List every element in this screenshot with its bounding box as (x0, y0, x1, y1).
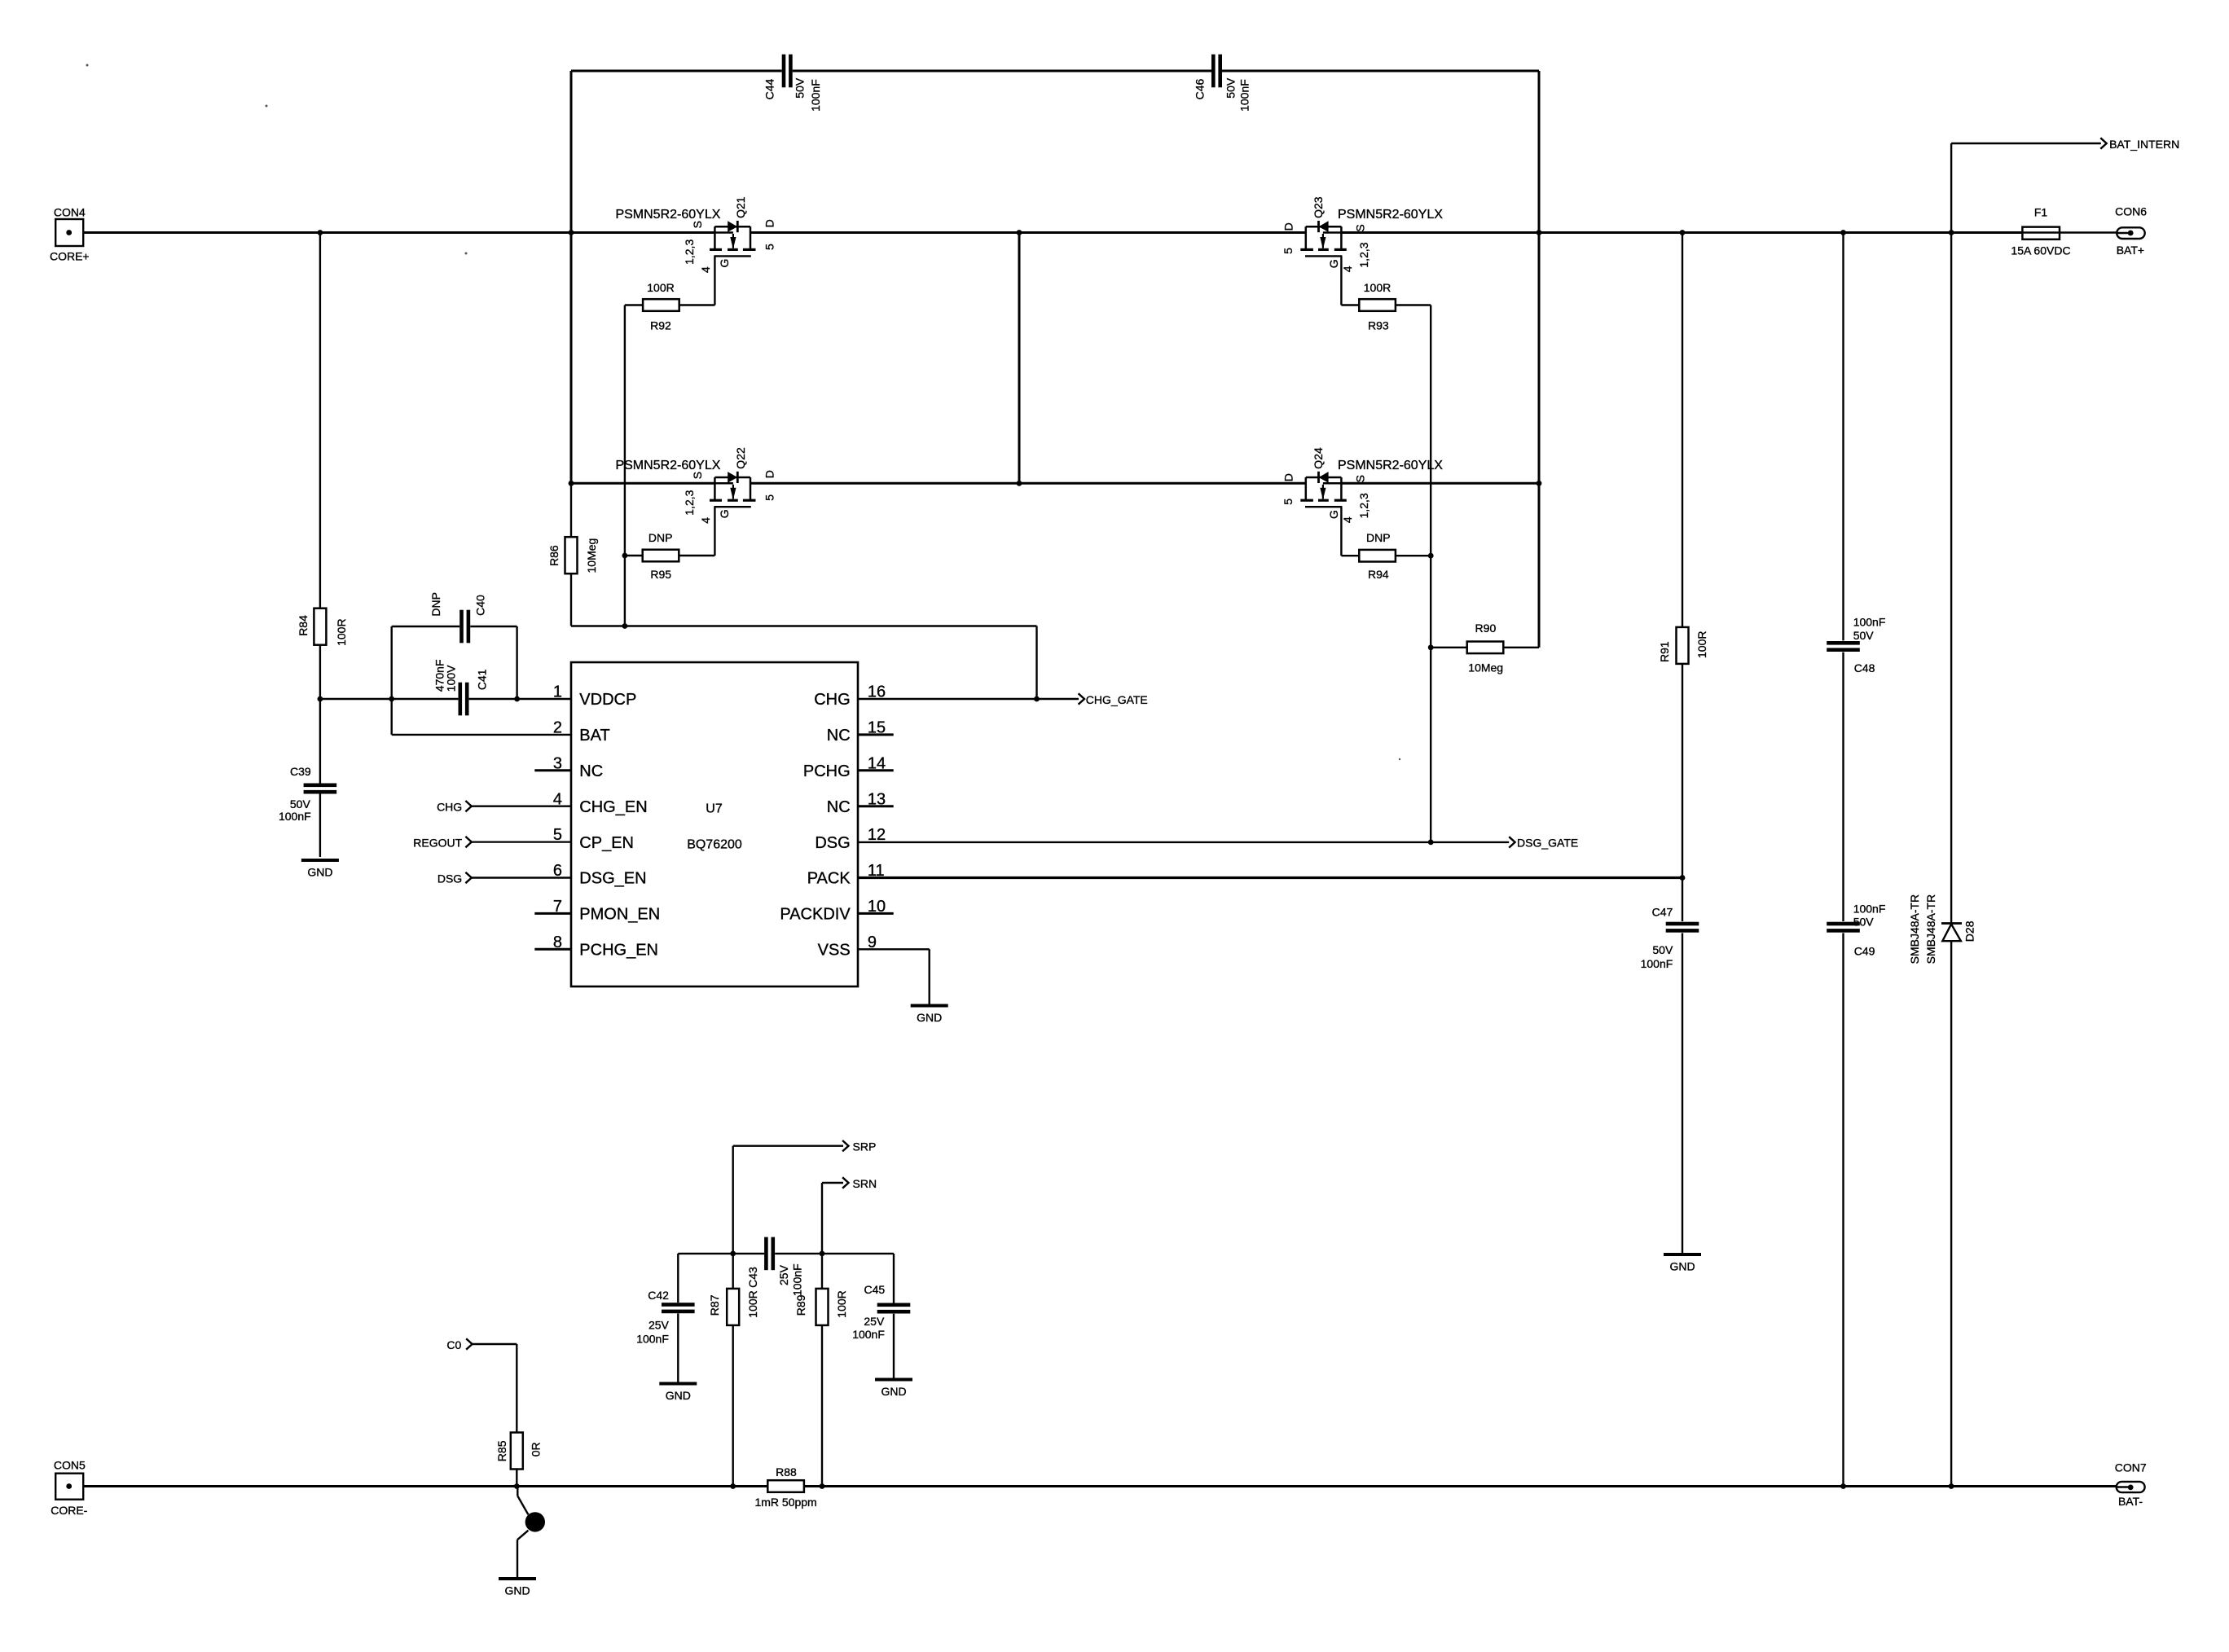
svg-text:D: D (763, 219, 776, 227)
svg-text:CHG_EN: CHG_EN (579, 798, 647, 816)
ground below VSS (911, 1004, 948, 1008)
connector CON6 (2117, 227, 2145, 239)
wire VSS pin 9 to ground (858, 948, 930, 950)
wire DSG pin 12 to DSG_GATE (858, 841, 1509, 843)
wire D28 anode to BAT- rail (1950, 941, 1952, 1486)
svg-text:1,2,3: 1,2,3 (1357, 493, 1370, 518)
wire C43 row right to C45 (822, 1253, 894, 1254)
pin 13 NC stub (858, 805, 894, 807)
pin 10 PACKDIV stub (858, 912, 894, 915)
resistor R90 (1467, 642, 1504, 654)
svg-text:25V: 25V (864, 1315, 885, 1328)
svg-text:CP_EN: CP_EN (579, 834, 634, 852)
wire R89 bottom to CORE- rail (821, 1325, 823, 1487)
svg-text:5: 5 (553, 826, 562, 844)
svg-text:0R: 0R (529, 1442, 542, 1456)
junction C43 row / R87 SRP (730, 1251, 736, 1257)
svg-text:5: 5 (763, 494, 776, 501)
wire CORE+ rail from Q21 drain to Q23 drain (750, 231, 1306, 234)
ground below C45 (875, 1378, 912, 1382)
resistor R87 (727, 1289, 739, 1325)
svg-text:13: 13 (868, 790, 886, 808)
wire CORE+ rail from CON4 to Q21 source (69, 231, 715, 234)
wire C40 loop left vertical (391, 626, 393, 735)
svg-text:25V: 25V (777, 1264, 790, 1285)
svg-text:100nF: 100nF (852, 1328, 885, 1341)
svg-text:S: S (1354, 475, 1367, 482)
svg-text:G: G (718, 509, 731, 518)
svg-text:100R: 100R (335, 618, 348, 645)
svg-text:50V: 50V (290, 797, 311, 811)
svg-text:D28: D28 (1963, 920, 1976, 942)
svg-text:PCHG: PCHG (803, 762, 851, 780)
svg-text:16: 16 (868, 683, 886, 701)
svg-text:12: 12 (868, 826, 886, 844)
capacitor C46 (1211, 55, 1216, 88)
junction CORE- rail / R87 R88 (730, 1483, 736, 1489)
transistor Q22 (714, 477, 716, 499)
svg-text:R84: R84 (297, 615, 310, 636)
wire C48 to C49 (1842, 652, 1844, 921)
svg-text:8: 8 (553, 934, 562, 951)
junction gate net / R90 (1428, 644, 1434, 650)
svg-text:1,2,3: 1,2,3 (1357, 242, 1370, 267)
wire R85 to CORE- rail (516, 1469, 517, 1486)
wire Q23 gate to R93 (1341, 304, 1358, 305)
wire BAT+ rail to C48 (1842, 233, 1844, 641)
svg-text:G: G (718, 259, 731, 268)
svg-text:NC: NC (579, 762, 603, 780)
pin 7 PMON_EN stub (534, 912, 571, 915)
wire R90 left (1431, 647, 1466, 648)
svg-text:BAT-: BAT- (2118, 1495, 2143, 1508)
node CHG_GATE output port (1079, 693, 1084, 704)
svg-text:C44: C44 (763, 79, 776, 100)
svg-text:GND: GND (917, 1011, 942, 1024)
wire BAT+ to D28 cathode (1950, 233, 1952, 924)
resistor R92 (643, 299, 679, 311)
svg-text:25V: 25V (648, 1319, 670, 1332)
svg-text:C48: C48 (1854, 661, 1875, 674)
svg-text:C45: C45 (864, 1283, 886, 1296)
svg-text:GND: GND (1669, 1260, 1695, 1273)
junction gate net / R95 (622, 553, 628, 559)
ground below C42 (659, 1382, 697, 1386)
svg-text:5: 5 (1282, 499, 1295, 505)
svg-text:2: 2 (553, 719, 562, 737)
svg-text:SRP: SRP (853, 1140, 877, 1153)
svg-text:100nF: 100nF (636, 1332, 669, 1345)
junction VDDCP node / C40 loop left (389, 696, 394, 702)
svg-text:R92: R92 (650, 319, 671, 332)
svg-text:S: S (691, 221, 704, 228)
svg-text:100nF: 100nF (791, 1263, 804, 1296)
connector CON4 (55, 219, 83, 246)
svg-text:15A 60VDC: 15A 60VDC (2011, 244, 2070, 257)
wire C40 row left (392, 626, 459, 627)
wire Q22 gate lead (714, 507, 715, 556)
wire C40 loop right vertical (516, 626, 517, 699)
svg-text:G: G (1327, 259, 1340, 268)
svg-text:R89: R89 (794, 1294, 807, 1316)
capacitor C43 (764, 1237, 768, 1271)
capacitor C41 (459, 683, 463, 716)
capacitor C39 (304, 784, 337, 788)
svg-text:C43: C43 (746, 1267, 759, 1288)
wire R87 bottom to CORE- rail (732, 1325, 734, 1487)
svg-text:14: 14 (868, 754, 886, 772)
junction C43 row / R89 SRN (820, 1251, 825, 1257)
svg-text:R91: R91 (1658, 641, 1671, 662)
wire R90 right to BAT+ vertical (1504, 647, 1539, 648)
wire C45 to ground (893, 1314, 895, 1378)
svg-text:DNP: DNP (648, 531, 673, 544)
junction VDDCP node / C40 loop right (514, 696, 520, 702)
svg-text:CORE+: CORE+ (50, 250, 90, 263)
wire top loop right vertical (1538, 71, 1541, 233)
transistor Q21 (714, 226, 716, 248)
svg-text:CORE-: CORE- (51, 1504, 87, 1517)
svg-text:R85: R85 (495, 1440, 508, 1461)
svg-text:PSMN5R2-60YLX: PSMN5R2-60YLX (1338, 459, 1443, 472)
svg-text:NC: NC (827, 798, 851, 816)
svg-text:4: 4 (699, 266, 712, 273)
wire CORE+ rail to R84 (319, 233, 321, 609)
wire R91 to PACK node (1682, 664, 1683, 921)
wire VDDCP node down to C39 (319, 699, 321, 784)
wire C43 row plates (733, 1253, 764, 1254)
svg-text:15: 15 (868, 719, 886, 737)
svg-text:DNP: DNP (429, 592, 442, 617)
svg-text:D: D (1282, 473, 1295, 481)
wire R95 to gate-net vertical (625, 555, 643, 556)
wire R94 to right gate-net vertical (1396, 555, 1431, 556)
wire R93 to right gate-net vertical (1396, 304, 1431, 305)
svg-text:R87: R87 (708, 1294, 721, 1316)
svg-text:100nF: 100nF (1853, 903, 1886, 916)
connector CON5 (55, 1474, 83, 1500)
junction Q22 row / R86 (569, 481, 574, 486)
capacitor C47 (1666, 922, 1699, 926)
svg-text:R86: R86 (547, 545, 561, 566)
svg-text:50V: 50V (1853, 916, 1875, 929)
svg-text:F1: F1 (2034, 206, 2048, 219)
wire R89 top (821, 1254, 823, 1289)
wire SRP net (733, 1145, 843, 1146)
svg-text:10Meg: 10Meg (1468, 661, 1503, 674)
resistor R91 (1677, 627, 1689, 664)
svg-text:VDDCP: VDDCP (579, 691, 636, 709)
fuse F1 (2022, 227, 2060, 239)
wire mid vertical joining both rails (1018, 233, 1021, 484)
svg-text:100R: 100R (1364, 281, 1391, 294)
svg-text:CHG: CHG (814, 691, 850, 709)
svg-text:1mR 50ppm: 1mR 50ppm (754, 1496, 816, 1509)
wire CP_EN net from label (472, 841, 571, 842)
junction rail / top loop left (569, 230, 574, 235)
svg-text:100R: 100R (647, 281, 674, 294)
wire top loop rail segment left of C44 (571, 70, 782, 72)
svg-text:PSMN5R2-60YLX: PSMN5R2-60YLX (615, 208, 720, 222)
wire PACK pin 11 to sense divider (858, 877, 1682, 879)
wire CORE- rail from R88 to CON7 (805, 1485, 2131, 1487)
pin 15 NC stub (858, 733, 894, 736)
wire CHG gate route down to CHG pin (1035, 626, 1037, 700)
wire C41 right to pin 1 (469, 698, 571, 700)
wire BAT_INTERN net (1951, 143, 2101, 144)
svg-text:D: D (763, 470, 776, 478)
wire from CORE+ rail down to Q22 row (570, 233, 573, 484)
capacitor C48 (1827, 641, 1860, 645)
pin 3 NC stub (534, 769, 571, 771)
wire BAT+ rail from fuse F1 to CON6 (2060, 231, 2131, 233)
wire CHG pin 16 to CHG_GATE (858, 698, 1079, 700)
junction BAT- rail / C49 (1840, 1483, 1846, 1489)
svg-text:CON4: CON4 (54, 206, 86, 219)
junction BAT- rail / D28 (1949, 1483, 1954, 1489)
svg-text:1,2,3: 1,2,3 (683, 239, 696, 265)
node BAT_INTERN output port (2100, 138, 2106, 148)
svg-text:DSG: DSG (437, 872, 462, 885)
resistor R94 (1359, 550, 1396, 562)
svg-text:S: S (1354, 224, 1367, 231)
svg-text:100V: 100V (445, 665, 458, 692)
junction rail / D28 BAT_INTERN (1949, 230, 1954, 235)
wire DSG_EN net from label (472, 877, 571, 879)
svg-text:3: 3 (553, 754, 562, 772)
junction DSG pin / gate route (1428, 840, 1434, 846)
speckle artifacts (86, 64, 89, 67)
svg-text:GND: GND (504, 1584, 530, 1597)
svg-text:PACK: PACK (807, 870, 851, 888)
pin 14 PCHG stub (858, 769, 894, 771)
wire Q22 gate to R95 (679, 555, 715, 556)
wire Q22 drain to Q24 drain (750, 482, 1306, 485)
wire R86 bottom corner (570, 573, 572, 626)
wire C39 to ground (319, 794, 321, 858)
svg-text:SMBJ48A-TR: SMBJ48A-TR (1908, 894, 1921, 964)
svg-text:C40: C40 (473, 595, 486, 616)
svg-text:10: 10 (868, 898, 886, 916)
svg-text:7: 7 (553, 898, 562, 916)
svg-text:C49: C49 (1854, 944, 1875, 957)
svg-text:DSG_EN: DSG_EN (579, 870, 646, 888)
ground below C47 (1664, 1253, 1701, 1256)
svg-text:DNP: DNP (1366, 531, 1391, 544)
wire CHG_EN net from label (472, 806, 571, 807)
node DSG_GATE output port (1509, 837, 1515, 847)
wire top loop rail segment right of C46 (1222, 70, 1539, 72)
svg-text:5: 5 (1282, 248, 1295, 254)
svg-text:PMON_EN: PMON_EN (579, 906, 660, 924)
svg-text:S: S (691, 472, 704, 479)
svg-text:4: 4 (699, 517, 712, 524)
wire R87 top (732, 1254, 734, 1289)
svg-text:C39: C39 (290, 765, 311, 778)
svg-text:PSMN5R2-60YLX: PSMN5R2-60YLX (615, 459, 720, 472)
svg-text:Q22: Q22 (734, 447, 747, 469)
svg-text:CHG_GATE: CHG_GATE (1086, 693, 1148, 706)
junction PACK / R91 divider (1680, 875, 1686, 881)
svg-text:C46: C46 (1194, 79, 1207, 100)
wire C49 to BAT- rail (1842, 933, 1844, 1486)
svg-text:1,2,3: 1,2,3 (683, 490, 696, 515)
svg-text:Q21: Q21 (734, 196, 747, 218)
svg-text:PCHG_EN: PCHG_EN (579, 942, 658, 960)
svg-text:BAT+: BAT+ (2117, 244, 2144, 257)
junction Q22 row / mid vertical (1017, 481, 1022, 486)
junction gate net / R86 bottom (622, 623, 628, 629)
svg-text:R88: R88 (776, 1465, 797, 1478)
wire R84 to VDDCP node (319, 644, 321, 699)
resistor R85 (511, 1433, 523, 1470)
svg-text:R94: R94 (1368, 568, 1389, 581)
svg-text:DSG: DSG (815, 834, 850, 852)
svg-text:CON7: CON7 (2115, 1461, 2147, 1474)
connector CON7 (2117, 1482, 2145, 1492)
svg-text:U7: U7 (706, 802, 723, 816)
svg-text:10Meg: 10Meg (585, 538, 598, 573)
wire Q22 source rail (571, 482, 714, 485)
svg-text:9: 9 (868, 934, 877, 951)
junction VDDCP node / R84 (318, 696, 323, 702)
junction Q22 row / right vertical (1537, 481, 1542, 486)
wire Q24 gate lead (1340, 507, 1342, 556)
resistor R88 current shunt (767, 1480, 804, 1492)
svg-text:100R: 100R (835, 1290, 848, 1317)
wire left gate-net vertical (624, 305, 626, 626)
svg-text:PACKDIV: PACKDIV (780, 906, 851, 924)
svg-text:5: 5 (763, 244, 776, 250)
wire Q21 gate to R92 (679, 304, 714, 305)
capacitor C40 DNP (459, 610, 464, 644)
diode D28 TVS (1941, 922, 1962, 925)
wire R86 top to Q22 source rail (570, 483, 572, 537)
svg-text:C47: C47 (1652, 906, 1673, 919)
svg-text:6: 6 (553, 862, 562, 880)
svg-text:R95: R95 (650, 568, 671, 581)
svg-text:DSG_GATE: DSG_GATE (1517, 837, 1578, 850)
junction CORE- rail / R88 R89 (820, 1483, 825, 1489)
transistor Q24 (1340, 477, 1343, 499)
svg-text:NC: NC (827, 727, 851, 745)
node SRP output port (842, 1140, 848, 1151)
transistor Q23 (1340, 226, 1343, 248)
svg-text:50V: 50V (1652, 943, 1673, 956)
svg-text:100R: 100R (746, 1290, 759, 1317)
resistor R93 (1359, 299, 1396, 311)
junction gate net / R94 (1428, 553, 1434, 559)
svg-text:GND: GND (307, 866, 332, 879)
resistor R89 (816, 1289, 829, 1325)
capacitor C45 (877, 1303, 911, 1307)
resistor R84 (314, 609, 326, 645)
wire C0 net (473, 1343, 517, 1345)
wire C40 row right (470, 626, 517, 627)
wire C47 to ground (1682, 933, 1683, 1253)
svg-text:BAT_INTERN: BAT_INTERN (2109, 138, 2179, 151)
node SRN output port (842, 1177, 848, 1188)
wire C42 to ground (677, 1313, 679, 1382)
junction CORE- rail / R85 (514, 1483, 520, 1489)
svg-text:50V: 50V (794, 77, 807, 99)
svg-text:SRN: SRN (853, 1177, 877, 1190)
wire ground jumper (517, 1487, 518, 1496)
svg-text:11: 11 (868, 862, 885, 880)
svg-text:100nF: 100nF (809, 79, 822, 112)
capacitor C49 (1827, 922, 1860, 926)
svg-text:1: 1 (553, 683, 562, 701)
wire Q21 gate lead (714, 256, 715, 305)
wire Q23 gate lead (1340, 256, 1342, 305)
ground below R85 jumper (499, 1577, 536, 1580)
wire CORE- rail from CON5 to R88 (69, 1485, 767, 1487)
wire BAT+ rail to R91 (1682, 233, 1683, 627)
op-amp U7 BQ76200 IC (571, 662, 858, 986)
svg-text:G: G (1327, 510, 1340, 519)
svg-text:100nF: 100nF (1853, 615, 1886, 628)
svg-text:PSMN5R2-60YLX: PSMN5R2-60YLX (1338, 208, 1443, 222)
svg-text:GND: GND (666, 1389, 691, 1402)
capacitor C42 (662, 1303, 695, 1307)
svg-text:VSS: VSS (818, 942, 851, 960)
svg-text:100nF: 100nF (1238, 79, 1251, 112)
svg-text:100R: 100R (1695, 631, 1708, 658)
svg-text:C42: C42 (648, 1289, 669, 1302)
ground below C39 (301, 859, 339, 862)
junction CHG pin / gate route (1034, 696, 1040, 702)
wire top loop rail segment C44 to C46 (793, 70, 1211, 72)
svg-text:CON5: CON5 (54, 1459, 86, 1472)
junction CON4 rail / R84 (318, 230, 323, 235)
svg-text:50V: 50V (1224, 77, 1237, 99)
wire R92 to gate-net vertical (625, 304, 644, 305)
wire Q24 gate to R94 (1341, 555, 1358, 556)
wire Q24 source to right vertical (1341, 482, 1539, 485)
resistor R95 (643, 550, 679, 562)
svg-text:C0: C0 (446, 1338, 461, 1351)
svg-text:100nF: 100nF (279, 810, 311, 823)
svg-text:4: 4 (1341, 516, 1354, 523)
wire VDDCP node to C41 left (320, 698, 459, 700)
junction rail / R91 (1680, 230, 1686, 235)
svg-text:REGOUT: REGOUT (413, 836, 462, 849)
svg-text:Q24: Q24 (1312, 447, 1325, 469)
svg-text:SMBJ48A-TR: SMBJ48A-TR (1924, 894, 1937, 964)
svg-text:D: D (1282, 222, 1295, 231)
svg-text:100nF: 100nF (1641, 957, 1673, 970)
svg-text:GND: GND (881, 1385, 906, 1398)
wire right vertical rail to Q24 row to R90 (1538, 233, 1541, 648)
svg-text:Q23: Q23 (1312, 196, 1325, 218)
wire C43 row left to C42 (678, 1253, 732, 1254)
svg-text:R90: R90 (1475, 622, 1497, 635)
capacitor C44 (782, 55, 786, 88)
svg-text:C41: C41 (476, 669, 489, 690)
svg-text:50V: 50V (1853, 629, 1875, 642)
wire SRN net (822, 1182, 843, 1184)
svg-text:4: 4 (1341, 266, 1354, 272)
svg-text:CON6: CON6 (2115, 205, 2147, 218)
junction rail / C48 (1840, 230, 1846, 235)
svg-text:BQ76200: BQ76200 (687, 838, 742, 852)
wire BAT+ rail from Q23 source to fuse F1 (1341, 231, 2022, 234)
resistor R86 (565, 537, 578, 573)
svg-text:BAT: BAT (579, 727, 609, 745)
wire top loop left vertical (570, 71, 573, 233)
junction rail / top loop right (1537, 230, 1542, 235)
svg-text:4: 4 (553, 790, 562, 808)
